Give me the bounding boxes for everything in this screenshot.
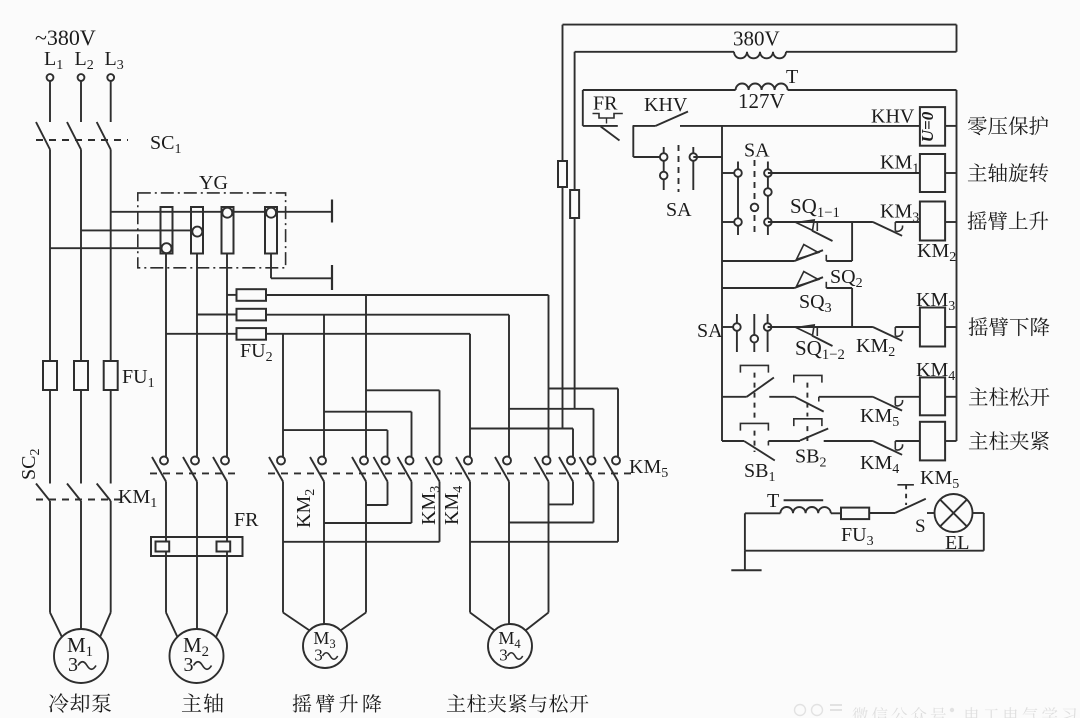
SQ3 blade — [795, 277, 824, 288]
limit switch SQ1-1 — [796, 220, 814, 231]
wire bus C to KM2-c1 — [282, 334, 284, 457]
wire tap L1 to YG ring 1 — [50, 247, 167, 249]
FU2 fuse 2 — [237, 309, 267, 321]
limit switch SQ1-2 — [796, 325, 814, 336]
drop to SA1 — [632, 126, 634, 157]
SQ2 blade — [795, 250, 824, 261]
KM5 NC blade — [873, 397, 902, 411]
contact circle — [434, 457, 442, 465]
svg-text:KHV: KHV — [871, 106, 915, 128]
coil KM4 — [895, 396, 920, 398]
SB1 cap lower — [740, 423, 768, 430]
KM3 outputs — [387, 482, 389, 506]
wire FU1 to SC2 — [49, 390, 51, 484]
lamp EL — [935, 494, 973, 532]
wire KM1 out — [196, 482, 198, 630]
wire bend M2 right — [216, 613, 227, 637]
FR heater 1 — [156, 542, 170, 552]
wire bus C to KM4-c1 — [469, 334, 471, 457]
SB1 cap upper — [740, 365, 768, 372]
M1 tilde — [78, 662, 96, 670]
svg-text:SA: SA — [744, 140, 770, 162]
wire YG1 down to KM1 — [165, 254, 167, 457]
YG brush 3 — [222, 207, 234, 254]
M3 tilde — [323, 653, 338, 660]
M4 tilde — [508, 653, 523, 660]
fuse on feed 1 — [558, 161, 567, 187]
label spindle 主轴 — [182, 693, 223, 712]
contact blade — [374, 457, 388, 482]
svg-text:SA: SA — [697, 320, 723, 342]
relay coil KHV — [920, 107, 945, 146]
M2 tilde — [194, 662, 212, 670]
motor M3 — [303, 624, 347, 668]
contact blade — [183, 457, 197, 482]
KM1 link — [150, 472, 240, 474]
FR blade — [601, 127, 620, 141]
YG ring contact 1 — [162, 243, 172, 253]
contact circle — [277, 457, 285, 465]
SB2 link — [806, 383, 808, 417]
contact blade — [456, 457, 470, 482]
contact blade — [269, 457, 283, 482]
svg-text:YG: YG — [199, 172, 228, 194]
SC2 blade — [67, 484, 81, 502]
switch SA2 — [722, 172, 738, 174]
junction SQ1-1/SQ2 — [851, 222, 853, 261]
left rail — [582, 90, 584, 126]
coil KM1 — [920, 154, 945, 192]
contact circle — [612, 457, 620, 465]
contact blade — [426, 457, 440, 482]
wire bend M1 right — [100, 613, 111, 637]
terminal circle — [47, 74, 54, 81]
wire from terminal L — [80, 81, 82, 122]
SC1 blade — [67, 122, 81, 150]
label column release 主柱松开 — [969, 387, 1050, 406]
contact circle — [318, 457, 326, 465]
contact circle — [464, 457, 472, 465]
label spindle rotate 主轴旋转 — [968, 163, 1048, 182]
fuse FU1 — [43, 361, 57, 390]
SC2 blade — [36, 484, 50, 502]
YG brush 2 — [191, 207, 203, 254]
FR tick — [606, 118, 608, 124]
transformer T lighting secondary — [744, 513, 746, 550]
SB1 link — [754, 373, 756, 421]
wire bend M3 right — [341, 613, 366, 631]
KM3 NC blade — [873, 222, 902, 236]
switch SA3 — [722, 326, 737, 328]
KHV coil to right rail — [945, 125, 956, 127]
SB2 cap lower — [794, 419, 822, 426]
rung arm-down — [768, 326, 873, 328]
wire YG3 down to KM1 — [226, 254, 228, 457]
pushbutton SB1 NO — [722, 396, 747, 398]
coil KM2 — [895, 221, 920, 223]
svg-text:S: S — [915, 516, 926, 537]
KM4 NC blade — [873, 441, 902, 455]
wire tap L3 to YG ring 3/4 — [111, 211, 332, 213]
coil KM3 — [895, 326, 920, 328]
wire FU1 to SC2 — [110, 390, 112, 484]
label arm down 摇臂下降 — [969, 317, 1050, 336]
thermal contact FR — [583, 125, 618, 127]
YG brush 1 — [161, 207, 173, 254]
wire L2 down — [80, 150, 82, 362]
limit switch SQ2 — [722, 260, 795, 262]
S blade — [895, 499, 926, 513]
FR heater 2 — [217, 542, 231, 552]
reversing tie wires M4 — [549, 503, 574, 505]
svg-text:380V: 380V — [733, 27, 780, 51]
limit switch SQ3 — [722, 287, 795, 289]
contact blade — [352, 457, 366, 482]
380V primary loop — [563, 24, 957, 26]
contact blade — [152, 457, 166, 482]
motor M1 — [54, 629, 108, 683]
contact blade — [213, 457, 227, 482]
SC2 link — [36, 499, 122, 501]
svg-text:KHV: KHV — [644, 94, 688, 116]
SB1 link lower — [754, 431, 756, 452]
KM4/KM5 link — [455, 472, 632, 474]
label column clamp 主柱夹紧 — [969, 431, 1049, 450]
label zero-volt protection 零压保护 — [968, 116, 1048, 135]
fuse on feed 2 — [570, 190, 579, 218]
wire FU1 to SC2 — [80, 390, 82, 484]
control feed wire phase 1 — [562, 25, 564, 161]
wire from terminal L — [110, 81, 112, 122]
contact circle — [191, 457, 199, 465]
svg-text:3: 3 — [68, 654, 78, 676]
contact blade — [398, 457, 412, 482]
contact circle — [221, 457, 229, 465]
KM5 outputs — [572, 482, 574, 505]
svg-text:3: 3 — [314, 646, 323, 665]
svg-text:3: 3 — [184, 654, 194, 676]
contact circle — [382, 457, 390, 465]
KM2 outputs to M3 — [282, 482, 284, 613]
motor M4 — [488, 624, 532, 668]
SC1 blade — [97, 122, 111, 150]
label cooling pump 冷却泵 — [49, 693, 111, 712]
KM5 dashed link — [905, 485, 907, 505]
SC2 blade — [97, 484, 111, 502]
wire bus B to KM2-c2 — [323, 315, 325, 457]
terminal circle — [78, 74, 85, 81]
label arm raise/lower 摇臂升降 — [293, 694, 382, 713]
label arm up 摇臂上升 — [968, 211, 1049, 230]
SC1 blade — [36, 122, 50, 150]
wire to FU2-2 — [197, 314, 237, 316]
wire YG2 down to KM1 — [196, 254, 198, 457]
contact blade — [535, 457, 549, 482]
SB2 cap upper — [794, 375, 822, 382]
rung 1 wire to KHV coil — [680, 125, 920, 127]
contact circle — [567, 457, 575, 465]
bus C — [266, 333, 470, 335]
KHV blade — [656, 112, 688, 126]
contact blade — [310, 457, 324, 482]
junction SQ3 to down-rung — [851, 288, 853, 327]
ground — [744, 551, 746, 571]
main node rail — [721, 126, 723, 441]
KM4 outputs to M4 — [469, 482, 471, 613]
wire tap L2 to YG ring 2 — [81, 229, 197, 231]
coil KM5 — [895, 440, 920, 442]
fuse FU3 — [841, 508, 869, 519]
contact circle — [360, 457, 368, 465]
wire bus B to KM4-c2 — [508, 315, 510, 457]
wire KM1 out — [165, 482, 167, 613]
svg-text:T: T — [767, 490, 779, 512]
SB2 NC blade — [795, 397, 824, 412]
wire SC2 to M1 — [110, 501, 112, 613]
wire bus A to KM4-c3 — [548, 295, 550, 457]
YG ring contact 4 — [266, 208, 276, 218]
svg-text:T: T — [786, 66, 798, 88]
transformer T secondary coil — [736, 84, 788, 91]
SB1 NO blade — [747, 378, 774, 397]
wire bend M3 left — [283, 613, 309, 631]
wire SC2 to M1 — [49, 501, 51, 613]
wire L1 down — [49, 150, 51, 362]
terminal circle — [107, 74, 114, 81]
svg-text:3: 3 — [499, 646, 508, 665]
FR heater bracket — [593, 114, 623, 119]
YG ring contact 2 — [192, 227, 202, 237]
wire bend M2 left — [166, 613, 177, 637]
YG ring contact 3 — [222, 208, 232, 218]
contact blade — [495, 457, 509, 482]
wire to FU2-3 — [166, 333, 237, 335]
switch SA1 bypass — [663, 147, 665, 190]
rung KM1 spindle — [768, 172, 920, 174]
svg-text:U=0: U=0 — [918, 111, 937, 142]
contact circle — [503, 457, 511, 465]
wire bend M4 left — [470, 613, 494, 631]
wire after FR — [633, 125, 656, 127]
terminal bar upper — [331, 200, 333, 223]
FU2 fuse 3 — [237, 328, 267, 340]
wire SC2 to M1 — [80, 501, 82, 629]
contact circle — [543, 457, 551, 465]
SA1 to rail — [693, 156, 722, 158]
label column clamp/release 主柱夹紧与松开 — [447, 694, 589, 712]
wire KM1 out — [226, 482, 228, 613]
wire L3 down — [110, 150, 112, 362]
control feed wire phase 2 — [574, 52, 576, 190]
KM5 bar — [897, 484, 914, 486]
127V secondary line — [583, 89, 736, 91]
wire bend M4 right — [526, 613, 549, 631]
wire to FU2-1 — [227, 294, 237, 296]
slip-ring unit YG box — [138, 193, 286, 268]
wire bus A to KM2-c3 — [365, 295, 367, 457]
motor M2 — [170, 629, 224, 683]
thermal relay FR heater box — [151, 537, 243, 556]
SB1 NC blade — [744, 441, 775, 461]
reversing tie wires M3 — [366, 504, 388, 506]
contact blade — [604, 457, 618, 482]
rung arm-up — [768, 221, 873, 223]
svg-text:127V: 127V — [738, 89, 785, 113]
wire YG ring4 output — [270, 254, 272, 279]
KM2/KM3 link — [268, 472, 452, 474]
KM2 NC blade — [873, 327, 902, 341]
svg-text:~380V: ~380V — [35, 25, 96, 50]
watermark — [795, 704, 843, 716]
wire bend M1 left — [50, 613, 62, 637]
right rail — [956, 90, 958, 441]
FU2 fuse 1 — [237, 289, 267, 301]
contact blade — [559, 457, 573, 482]
contact circle — [406, 457, 414, 465]
terminal bar lower — [331, 265, 333, 290]
T secondary coil — [780, 507, 830, 513]
bus A — [266, 294, 549, 296]
T core bar — [784, 499, 824, 501]
contact circle — [588, 457, 596, 465]
SB2 NO blade — [800, 429, 828, 441]
contact blade — [580, 457, 594, 482]
lamp return wire — [973, 512, 984, 514]
bus B — [266, 314, 509, 316]
svg-text:SA: SA — [666, 199, 692, 221]
transformer T primary coil — [734, 52, 786, 59]
SC1 link — [36, 139, 128, 141]
contact circle — [160, 457, 168, 465]
YG brush 4 — [265, 207, 277, 254]
wire from terminal L — [49, 81, 51, 122]
SB2 link lower — [806, 426, 808, 441]
pushbutton SB1 NC — [722, 440, 744, 442]
svg-text:FR: FR — [234, 509, 259, 531]
svg-text:FR: FR — [593, 93, 618, 115]
